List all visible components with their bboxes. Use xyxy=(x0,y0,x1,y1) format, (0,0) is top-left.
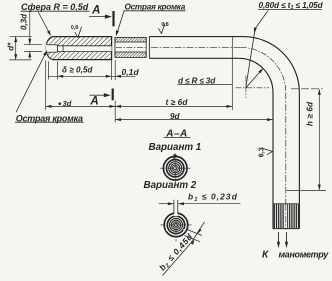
tube body (outer sleeve, hatched section) xyxy=(46,37,111,60)
dimension d* extension lines xyxy=(10,35,32,37)
tube external view top edge xyxy=(149,36,243,38)
svg-text:0,8: 0,8 xyxy=(71,25,78,31)
inner tube centerline xyxy=(116,46,146,48)
extension line at bend tangent xyxy=(231,37,233,110)
label b2<=0,45d with underline leader xyxy=(163,244,191,276)
svg-text:d*: d* xyxy=(7,42,16,51)
dimension 0,3d extension lines xyxy=(24,44,42,46)
inlet hole bore xyxy=(46,45,58,52)
dimension line 9d xyxy=(115,119,273,121)
circle 2 crosshairs xyxy=(160,224,191,226)
dimension 0,3d line with outside arrows xyxy=(29,11,31,45)
svg-text:А: А xyxy=(89,96,98,108)
vertical tube centerline xyxy=(285,92,287,229)
bend inner curve xyxy=(239,58,273,92)
svg-text:Острая кромка: Острая кромка xyxy=(125,3,186,12)
tube end bottom line xyxy=(273,228,299,230)
vertical tube right edge xyxy=(298,93,300,229)
bore channel xyxy=(57,46,111,52)
bend center mark xyxy=(236,87,270,89)
vertical tube left edge xyxy=(272,93,274,229)
threaded section top line xyxy=(273,203,299,205)
section circle variant 1 xyxy=(163,156,187,180)
flow arrows down xyxy=(278,232,280,246)
extension lines for delta and 0,1d xyxy=(47,61,49,79)
bend outer curve xyxy=(243,37,299,93)
bore step xyxy=(56,45,58,52)
svg-text:0,1d: 0,1d xyxy=(122,67,140,77)
h dimension extension dashes xyxy=(291,88,323,90)
extension line from tube tip xyxy=(45,61,47,111)
svg-text:t ≥ 6d: t ≥ 6d xyxy=(166,98,189,107)
dimension d* line with arrows xyxy=(15,36,17,60)
section circle variant 2 xyxy=(164,213,188,237)
label 3d with dot xyxy=(59,102,62,105)
dimension b1 xyxy=(159,203,174,205)
svg-text:9d: 9d xyxy=(170,112,181,121)
svg-text:3d: 3d xyxy=(63,99,72,108)
sharp edge leader xyxy=(117,11,125,35)
sharp edge gap at section plane xyxy=(114,37,116,57)
centerline gaps on ring xyxy=(166,229,168,231)
section plane extension line xyxy=(114,101,116,123)
b2 extension lines xyxy=(186,229,202,236)
tube external view bottom edge xyxy=(149,57,238,59)
svg-text:К: К xyxy=(262,250,269,261)
threaded end hatch xyxy=(274,204,298,228)
svg-text:Вариант 1: Вариант 1 xyxy=(149,142,202,153)
svg-text:Вариант 2: Вариант 2 xyxy=(144,180,197,191)
svg-text:h ≥ 6d: h ≥ 6d xyxy=(306,101,315,126)
inner tube walls (hatched) after section plane xyxy=(115,37,146,42)
svg-text:А: А xyxy=(91,4,100,16)
radius arrow xyxy=(246,69,263,88)
svg-text:Сфера R = 0,5d: Сфера R = 0,5d xyxy=(21,2,89,12)
small arrow at circle 1 top xyxy=(173,154,177,160)
svg-text:δ ≥ 0,5d: δ ≥ 0,5d xyxy=(62,66,93,75)
bend centerline arc xyxy=(241,47,286,92)
slot in variant 2 xyxy=(174,200,178,217)
h dimension line xyxy=(318,89,320,190)
dimension line delta / 0,1d xyxy=(48,75,135,77)
wall thickness leader xyxy=(255,10,268,28)
inner tube end line xyxy=(145,37,147,57)
tube external view left end xyxy=(148,37,150,59)
svg-text:0,3d: 0,3d xyxy=(20,13,29,30)
svg-text:манометру: манометру xyxy=(279,250,330,260)
circle 1 crosshairs xyxy=(160,167,191,169)
tube centerline horizontal xyxy=(151,46,241,48)
sphere leader xyxy=(38,12,50,35)
dimension line 3d and t>=6d xyxy=(46,105,233,107)
sharp edge bottom leader xyxy=(16,51,47,112)
b2 dimension line xyxy=(191,222,205,244)
